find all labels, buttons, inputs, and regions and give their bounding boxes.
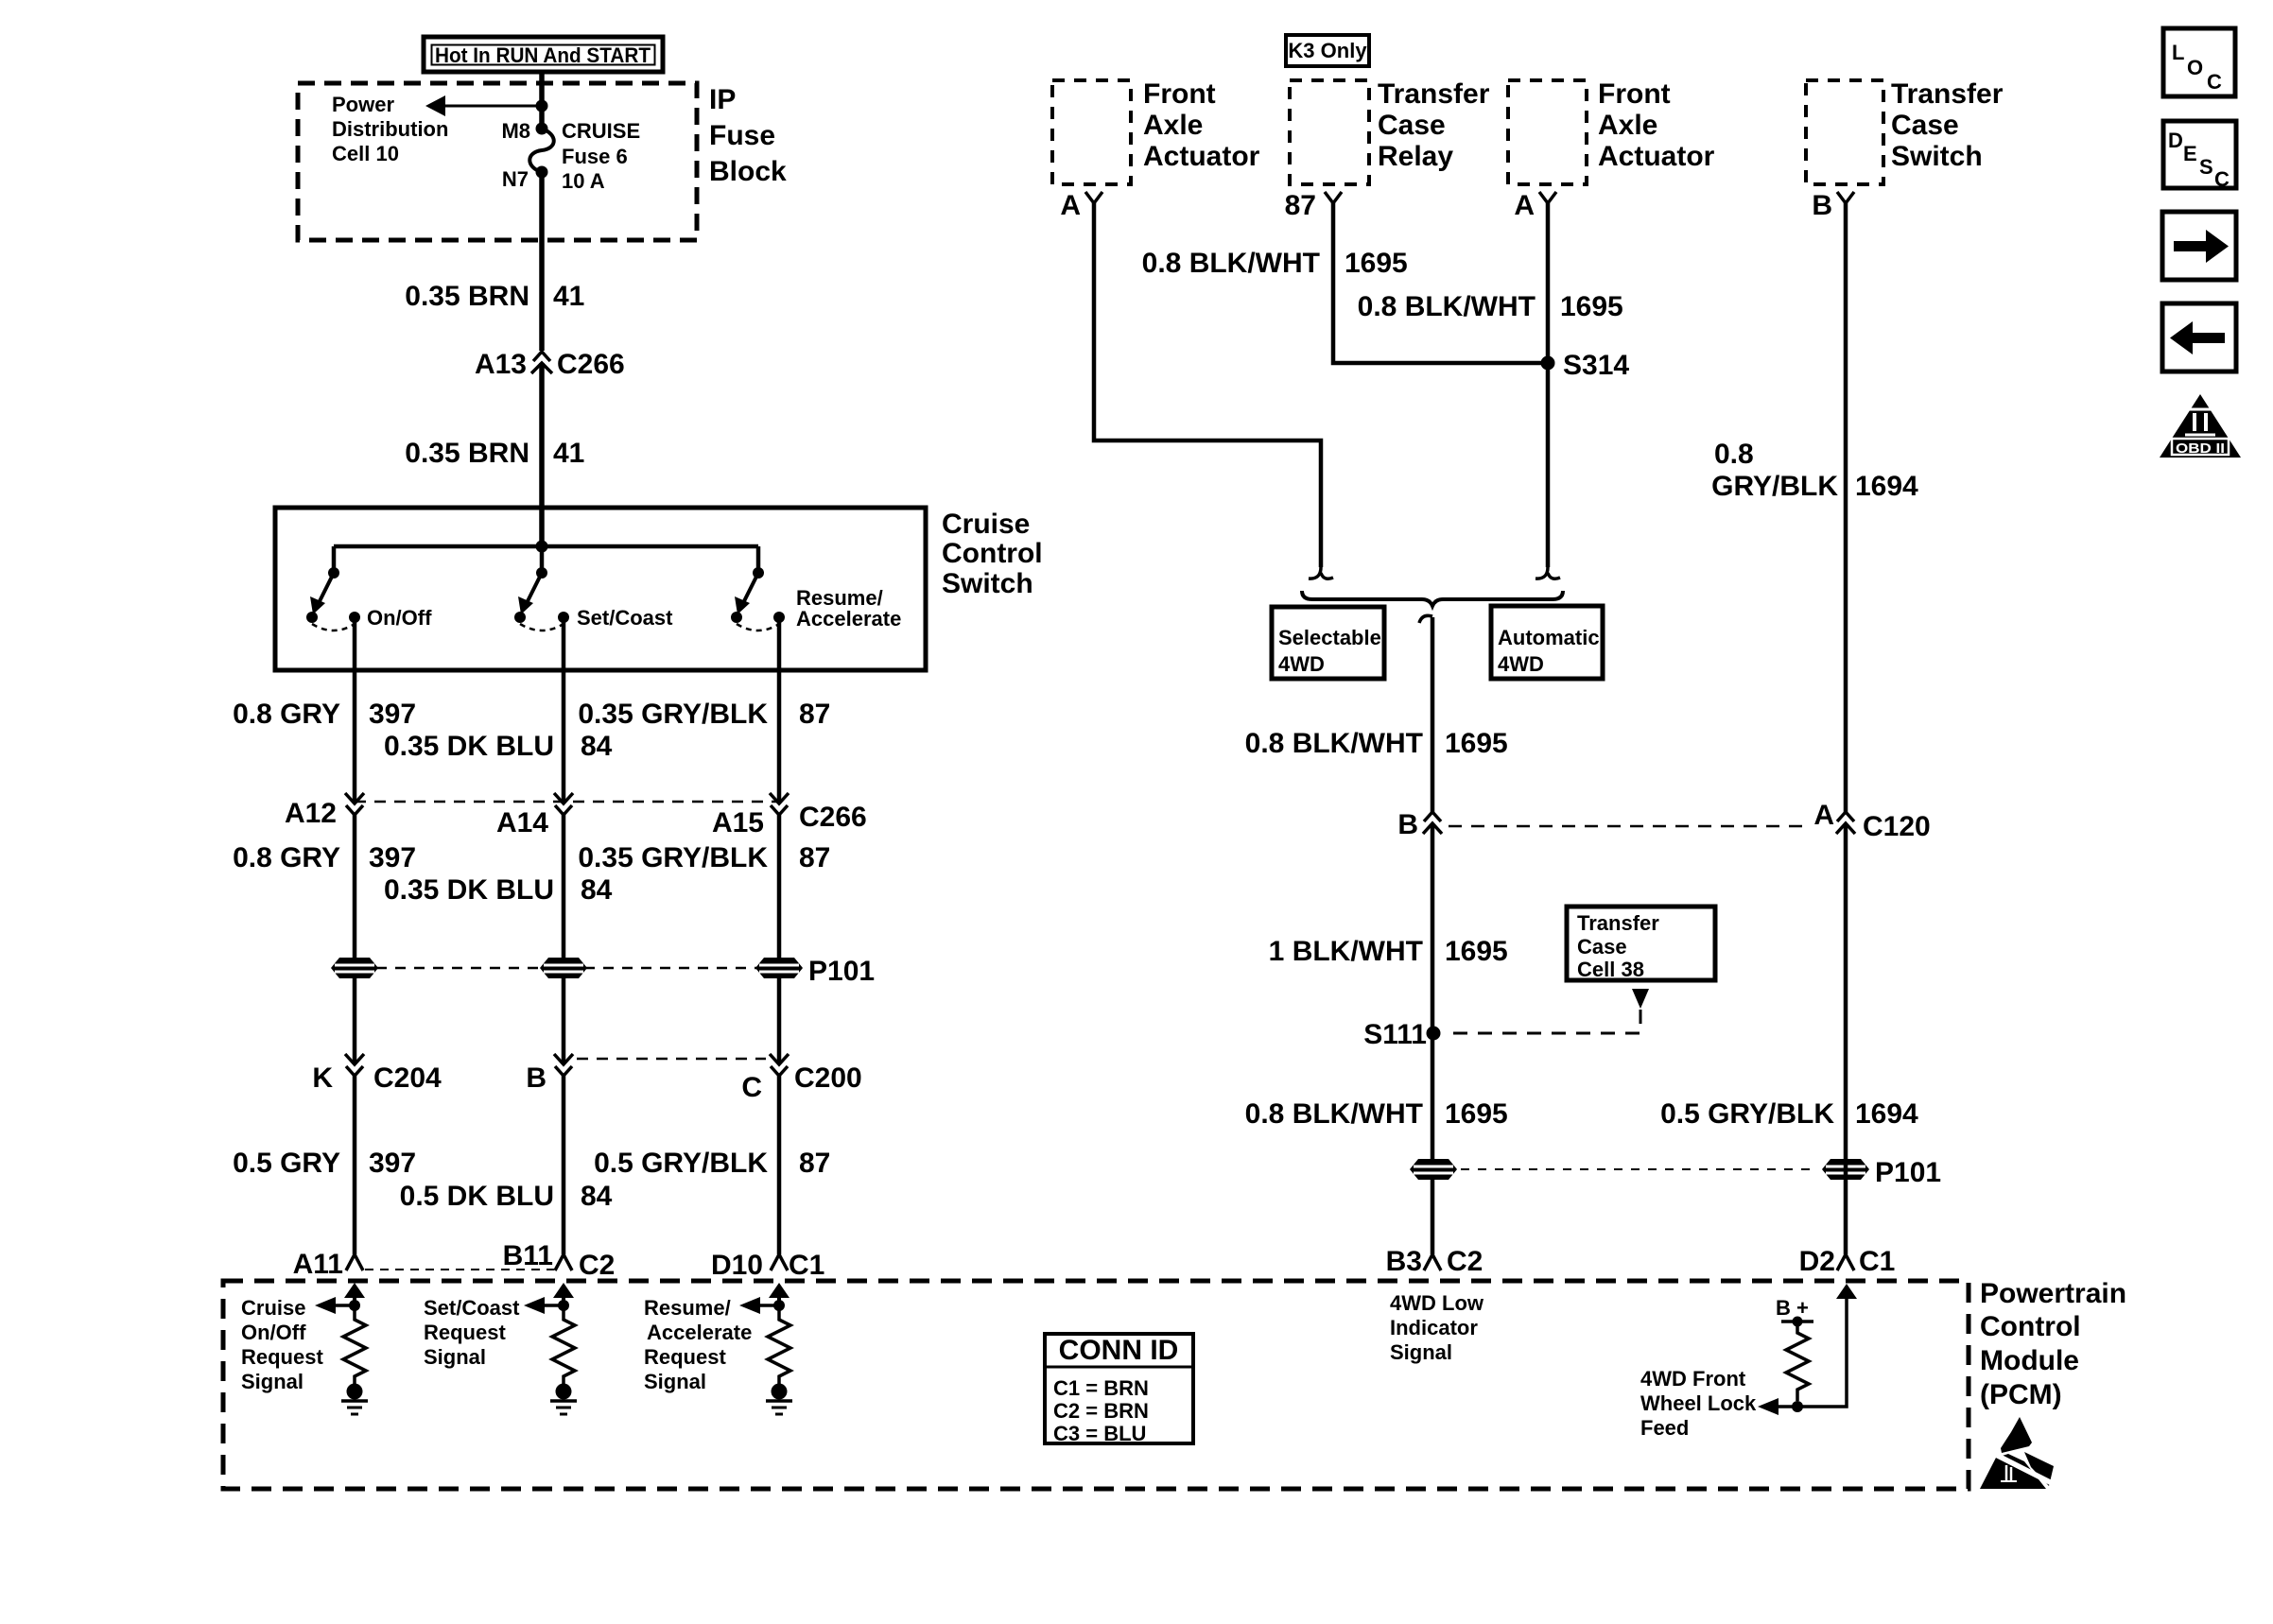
ESD sensitivity symbol: [1980, 1417, 2057, 1489]
wire label 0.35 BRN 41: [405, 281, 584, 312]
svg-text:C: C: [2214, 167, 2230, 191]
label 4WD Front Wheel Lock Feed: [1640, 1367, 1757, 1440]
wire hook left actuator lead: [1309, 567, 1333, 579]
svg-text:1694: 1694: [1855, 471, 1918, 502]
svg-text:M8: M8: [501, 119, 530, 143]
label 4WD Low Indicator Signal: [1390, 1291, 1484, 1364]
svg-text:0.35 BRN: 0.35 BRN: [405, 438, 529, 469]
svg-text:Cruise: Cruise: [942, 509, 1030, 540]
svg-text:Case: Case: [1891, 110, 1959, 141]
node junction on bus: [536, 541, 548, 553]
svg-text:Signal: Signal: [1390, 1340, 1452, 1364]
svg-text:Case: Case: [1577, 935, 1627, 959]
switch On/Off: [306, 567, 432, 631]
svg-text:Automatic: Automatic: [1498, 626, 1600, 649]
B+ supply symbol: [1776, 1296, 1813, 1327]
svg-text:Switch: Switch: [1891, 141, 1983, 172]
grommet P101 left row dashed link: [376, 967, 758, 970]
svg-text:0.35 GRY/BLK: 0.35 GRY/BLK: [578, 842, 768, 873]
label IP Fuse Block: [709, 84, 787, 187]
svg-text:CONN ID: CONN ID: [1059, 1335, 1179, 1366]
svg-text:Fuse 6: Fuse 6: [562, 145, 628, 168]
svg-text:Cruise: Cruise: [241, 1296, 305, 1320]
wire On/Off output: [353, 617, 357, 803]
wire label 0.8 GRY/BLK 1694: [1711, 439, 1918, 502]
resistor 4WD front wheel lock feed: [1786, 1322, 1809, 1401]
connector K C204: [312, 1054, 442, 1094]
switch Set/Coast: [514, 567, 673, 631]
wire label 0.8 BLK/WHT 1695 (actuator branch): [1358, 291, 1623, 322]
svg-text:B: B: [526, 1063, 547, 1094]
svg-text:Front: Front: [1143, 78, 1216, 110]
svg-text:GRY/BLK: GRY/BLK: [1711, 471, 1838, 502]
svg-text:4WD: 4WD: [1278, 652, 1325, 676]
svg-text:87: 87: [799, 842, 830, 873]
splice S111: [1363, 1019, 1440, 1050]
svg-text:On/Off: On/Off: [367, 606, 432, 630]
wire from right actuator A down through S314: [1546, 203, 1551, 567]
svg-text:IP: IP: [709, 84, 736, 115]
svg-text:Cell 10: Cell 10: [332, 142, 399, 165]
dashed link A11 to B11: [365, 1269, 554, 1270]
svg-text:C2: C2: [579, 1250, 615, 1281]
svg-text:OBD II: OBD II: [2176, 441, 2225, 457]
svg-text:Powertrain: Powertrain: [1980, 1278, 2126, 1309]
svg-text:Hot In RUN And START: Hot In RUN And START: [435, 43, 651, 67]
svg-text:C1: C1: [789, 1250, 824, 1281]
wire fuse output down to cruise switch: [539, 172, 545, 351]
wire B to B11: [562, 1076, 566, 1254]
connector A13 C266: [475, 349, 625, 380]
svg-text:D10: D10: [711, 1250, 763, 1281]
svg-text:41: 41: [553, 281, 584, 312]
svg-text:B: B: [1397, 809, 1418, 840]
wire from left actuator A down and right: [1094, 203, 1321, 567]
label Transfer Case Switch: [1891, 78, 2004, 172]
wire hook right actuator lead: [1536, 567, 1560, 579]
svg-text:A13: A13: [475, 349, 527, 380]
svg-text:Module: Module: [1980, 1345, 2079, 1376]
grommet P101 at Set/Coast wire: [540, 958, 587, 978]
pin 87 of Transfer Case Relay: [1285, 190, 1342, 221]
wire label 0.5 DK BLU 84: [400, 1181, 613, 1212]
icon LOC button: [2163, 28, 2235, 96]
connector C C200: [741, 1054, 861, 1103]
svg-text:1695: 1695: [1445, 1098, 1508, 1130]
svg-text:Power: Power: [332, 93, 394, 116]
svg-text:Distribution: Distribution: [332, 117, 448, 141]
svg-text:84: 84: [581, 731, 613, 762]
CONN ID table: [1045, 1334, 1193, 1445]
wire label 0.8 BLK/WHT 1695 (below S111): [1245, 1098, 1508, 1130]
IP Fuse Block dashed box: [298, 83, 697, 240]
svg-text:Resume/: Resume/: [644, 1296, 731, 1320]
svg-text:1694: 1694: [1855, 1098, 1918, 1130]
svg-text:4WD Front: 4WD Front: [1640, 1367, 1746, 1391]
grommet P101 at merged wire: [1410, 1159, 1457, 1180]
svg-text:B +: B +: [1776, 1296, 1809, 1320]
svg-text:0.35 DK BLU: 0.35 DK BLU: [384, 731, 554, 762]
svg-text:Control: Control: [1980, 1311, 2081, 1342]
wire label 0.5 GRY 397: [233, 1148, 416, 1179]
PCM input circuit for Resume/Accelerate: [739, 1283, 792, 1414]
component Front Axle Actuator (left) dashed box: [1052, 80, 1131, 184]
svg-text:N7: N7: [502, 167, 529, 191]
svg-text:Request: Request: [424, 1321, 506, 1344]
switch Resume/Accelerate: [731, 567, 901, 631]
wire transfer case switch B down: [1844, 203, 1848, 812]
dashed link B to A C120: [1449, 825, 1808, 828]
svg-text:A: A: [1514, 190, 1535, 221]
connector A11 at PCM: [293, 1249, 363, 1280]
svg-text:Signal: Signal: [644, 1370, 706, 1393]
svg-text:E: E: [2183, 142, 2197, 165]
svg-text:84: 84: [581, 874, 613, 906]
arrow from Transfer Case Cell 38: [1632, 989, 1649, 1009]
svg-text:0.35 DK BLU: 0.35 DK BLU: [384, 874, 554, 906]
svg-text:Accelerate: Accelerate: [647, 1321, 752, 1344]
label Transfer Case Relay: [1378, 78, 1490, 172]
svg-text:C120: C120: [1863, 811, 1931, 842]
svg-text:S: S: [2199, 155, 2213, 179]
node resistor bottom junction: [1792, 1401, 1803, 1412]
connector B11 C2 at PCM: [503, 1240, 616, 1281]
node junction at fuse feed: [536, 100, 548, 112]
svg-text:D2: D2: [1799, 1246, 1835, 1277]
svg-text:A11: A11: [293, 1249, 343, 1280]
wire merged signal C120 to PCM: [1431, 823, 1435, 1254]
grommet P101 at Resume wire: [755, 958, 803, 978]
label Cruise On/Off Request Signal: [241, 1296, 323, 1393]
icon OBD II symbol: [2160, 394, 2241, 458]
wire label 0.35 DK BLU 84 (second): [384, 874, 613, 906]
svg-text:Request: Request: [644, 1345, 726, 1369]
connector D10 C1 at PCM: [711, 1250, 824, 1281]
svg-text:C266: C266: [799, 802, 867, 833]
svg-text:A12: A12: [285, 798, 337, 829]
svg-text:87: 87: [799, 699, 830, 730]
svg-text:On/Off: On/Off: [241, 1321, 306, 1344]
svg-text:1 BLK/WHT: 1 BLK/WHT: [1269, 936, 1423, 967]
svg-text:84: 84: [581, 1181, 613, 1212]
label Resume/Accelerate Request Signal: [644, 1296, 752, 1393]
label Set/Coast Request Signal: [424, 1296, 520, 1369]
svg-text:0.5 DK BLU: 0.5 DK BLU: [400, 1181, 554, 1212]
svg-text:10 A: 10 A: [562, 169, 605, 193]
connector B3 C2 at PCM: [1386, 1246, 1484, 1277]
svg-text:0.35 GRY/BLK: 0.35 GRY/BLK: [578, 699, 768, 730]
connector B (C200): [526, 1054, 573, 1094]
wire label 0.8 GRY 397 (second): [233, 842, 416, 873]
svg-text:41: 41: [553, 438, 584, 469]
svg-text:Set/Coast: Set/Coast: [424, 1296, 520, 1320]
svg-text:Block: Block: [709, 156, 787, 187]
svg-text:87: 87: [799, 1148, 830, 1179]
svg-text:C200: C200: [794, 1063, 862, 1094]
svg-text:K: K: [312, 1063, 333, 1094]
arrow 4WD Front Wheel Lock Feed output: [1758, 1398, 1797, 1415]
grommet P101 at On/Off wire: [331, 958, 378, 978]
svg-text:Transfer: Transfer: [1378, 78, 1490, 110]
svg-text:Axle: Axle: [1143, 110, 1203, 141]
svg-text:P101: P101: [1875, 1157, 1941, 1188]
wire to power distribution with arrow: [425, 95, 542, 116]
label box Transfer Case Cell 38: [1567, 907, 1715, 981]
svg-text:(PCM): (PCM): [1980, 1379, 2062, 1410]
wire label 0.5 GRY/BLK 87: [594, 1148, 830, 1179]
svg-text:S314: S314: [1563, 350, 1629, 381]
wire switch signal to PCM: [1844, 823, 1848, 1254]
svg-text:Signal: Signal: [424, 1345, 486, 1369]
grommet P101 at switch wire: [1822, 1159, 1869, 1180]
svg-text:0.8 BLK/WHT: 0.8 BLK/WHT: [1358, 291, 1536, 322]
svg-text:A: A: [1060, 190, 1081, 221]
wire label 0.5 GRY/BLK 1694: [1660, 1098, 1918, 1130]
svg-text:397: 397: [369, 842, 416, 873]
wire internal bus of cruise switch: [334, 546, 758, 573]
connector B C120: [1397, 809, 1442, 840]
wire label 0.8 BLK/WHT 1695 (merged): [1245, 728, 1508, 759]
svg-text:C: C: [2207, 70, 2222, 94]
splice S314: [1541, 350, 1630, 381]
label Power Distribution Cell 10: [332, 93, 448, 165]
wire label 0.35 GRY/BLK 87: [578, 699, 830, 730]
svg-text:B3: B3: [1386, 1246, 1422, 1277]
svg-text:Accelerate: Accelerate: [796, 607, 901, 631]
svg-text:Actuator: Actuator: [1598, 141, 1715, 172]
svg-text:K3 Only: K3 Only: [1288, 39, 1367, 62]
svg-text:Transfer: Transfer: [1891, 78, 2004, 110]
svg-text:Control: Control: [942, 538, 1043, 569]
component Transfer Case Switch dashed box: [1806, 80, 1883, 184]
pin A of left Front Axle Actuator: [1060, 190, 1102, 221]
svg-text:A14: A14: [496, 807, 548, 838]
wire hook below brace: [1419, 615, 1432, 623]
label Powertrain Control Module (PCM): [1980, 1278, 2126, 1410]
label box K3 Only: [1286, 35, 1369, 66]
svg-text:0.35 BRN: 0.35 BRN: [405, 281, 529, 312]
svg-text:397: 397: [369, 1148, 416, 1179]
svg-text:Relay: Relay: [1378, 141, 1453, 172]
connector A C120: [1813, 800, 1930, 842]
svg-text:Front: Front: [1598, 78, 1671, 110]
svg-text:C204: C204: [373, 1063, 442, 1094]
svg-text:Set/Coast: Set/Coast: [577, 606, 673, 630]
wire label 0.8 BLK/WHT 1695 (relay branch): [1142, 248, 1408, 279]
svg-text:C3 = BLU: C3 = BLU: [1053, 1422, 1146, 1445]
wire from relay 87 down then right to S314: [1333, 203, 1544, 363]
wire Set/Coast to PCM upper: [562, 815, 566, 1063]
svg-text:Indicator: Indicator: [1390, 1316, 1478, 1339]
svg-text:Request: Request: [241, 1345, 323, 1369]
component Front Axle Actuator (right) dashed box: [1508, 80, 1587, 184]
svg-text:Signal: Signal: [241, 1370, 304, 1393]
svg-text:1695: 1695: [1560, 291, 1623, 322]
grommet P101 right row dashed link: [1461, 1168, 1818, 1170]
svg-text:S111: S111: [1363, 1019, 1427, 1050]
icon forward arrow button: [2162, 212, 2236, 280]
svg-text:1695: 1695: [1445, 936, 1508, 967]
wire label 0.35 DK BLU 84: [384, 731, 613, 762]
connector D2 C1 at PCM: [1799, 1246, 1896, 1277]
svg-text:D: D: [2168, 129, 2183, 152]
wire K to A11: [353, 1076, 357, 1254]
label Front Axle Actuator (right): [1598, 78, 1715, 172]
PCM input circuit for Set/Coast: [524, 1283, 577, 1414]
connector A12: [285, 793, 364, 829]
svg-text:0.8 GRY: 0.8 GRY: [233, 699, 340, 730]
svg-text:Actuator: Actuator: [1143, 141, 1260, 172]
connector row C266 dashed link: [355, 801, 779, 803]
wire from Hot box down to fuse: [539, 72, 545, 129]
svg-text:C2: C2: [1447, 1246, 1483, 1277]
wire label 0.35 BRN 41 (second): [405, 438, 584, 469]
svg-text:A: A: [1813, 800, 1834, 831]
wire junction up to D2 with arrow: [1797, 1284, 1857, 1407]
wire Set/Coast output: [562, 617, 566, 803]
svg-text:397: 397: [369, 699, 416, 730]
icon back arrow button: [2162, 303, 2236, 371]
svg-text:87: 87: [1285, 190, 1316, 221]
power label box "Hot In RUN And START": [424, 37, 663, 72]
svg-text:CRUISE: CRUISE: [562, 119, 640, 143]
svg-text:C266: C266: [557, 349, 625, 380]
wire merged 4WD signal down: [1431, 617, 1435, 812]
dashed link B to C: [577, 1058, 766, 1061]
wire C to D10: [777, 1076, 782, 1254]
svg-text:Cell 38: Cell 38: [1577, 958, 1644, 981]
svg-text:4WD Low: 4WD Low: [1390, 1291, 1484, 1315]
brace merging selectable/automatic leads: [1302, 591, 1563, 606]
svg-text:C: C: [741, 1072, 762, 1103]
svg-text:C2 = BRN: C2 = BRN: [1053, 1399, 1149, 1423]
svg-text:0.8: 0.8: [1714, 439, 1754, 470]
svg-text:Axle: Axle: [1598, 110, 1657, 141]
icon DESC button: [2163, 121, 2236, 191]
svg-text:1695: 1695: [1345, 248, 1408, 279]
wire Resume output: [777, 617, 782, 803]
Cruise Control Switch box: [275, 508, 926, 670]
svg-text:P101: P101: [808, 956, 875, 987]
component Transfer Case Relay dashed box: [1290, 80, 1369, 184]
svg-text:1695: 1695: [1445, 728, 1508, 759]
wire label 0.35 GRY/BLK 87 (second): [578, 842, 830, 873]
svg-text:Switch: Switch: [942, 568, 1033, 599]
svg-text:Wheel Lock: Wheel Lock: [1640, 1391, 1757, 1415]
fuse CRUISE Fuse 6 10 A: [501, 119, 640, 193]
label Cruise Control Switch: [942, 509, 1043, 599]
svg-text:4WD: 4WD: [1498, 652, 1544, 676]
svg-text:0.5 GRY/BLK: 0.5 GRY/BLK: [594, 1148, 768, 1179]
wire label 0.8 GRY 397: [233, 699, 416, 730]
svg-text:0.8 BLK/WHT: 0.8 BLK/WHT: [1245, 1098, 1423, 1130]
svg-text:C1 = BRN: C1 = BRN: [1053, 1376, 1149, 1400]
label Front Axle Actuator (left): [1143, 78, 1260, 172]
svg-text:B: B: [1812, 190, 1832, 221]
svg-text:Transfer: Transfer: [1577, 911, 1659, 935]
svg-text:0.8 BLK/WHT: 0.8 BLK/WHT: [1142, 248, 1320, 279]
connector A15 C266: [712, 793, 867, 838]
dashed link S111 to Transfer Case cell: [1445, 1010, 1640, 1033]
svg-text:0.5 GRY/BLK: 0.5 GRY/BLK: [1660, 1098, 1834, 1130]
pin B of Transfer Case Switch: [1812, 190, 1854, 221]
svg-text:0.5 GRY: 0.5 GRY: [233, 1148, 340, 1179]
PCM dashed box: [223, 1281, 1969, 1489]
svg-text:Case: Case: [1378, 110, 1446, 141]
wire On/Off to PCM upper: [353, 815, 357, 1063]
svg-text:A15: A15: [712, 807, 764, 838]
svg-text:B11: B11: [503, 1240, 553, 1271]
PCM input circuit for On/Off (arrows, resistor, ground): [315, 1283, 368, 1414]
svg-text:0.8 BLK/WHT: 0.8 BLK/WHT: [1245, 728, 1423, 759]
label box Automatic 4WD: [1491, 606, 1603, 679]
svg-text:O: O: [2187, 56, 2203, 79]
svg-text:0.8 GRY: 0.8 GRY: [233, 842, 340, 873]
label box Selectable 4WD: [1272, 607, 1384, 679]
svg-text:Fuse: Fuse: [709, 120, 775, 151]
svg-text:Selectable: Selectable: [1278, 626, 1381, 649]
wire label 1 BLK/WHT 1695: [1269, 936, 1508, 967]
pin A of right Front Axle Actuator: [1514, 190, 1556, 221]
svg-text:Feed: Feed: [1640, 1416, 1689, 1440]
wire Resume to PCM upper: [777, 815, 782, 1063]
connector A14: [496, 793, 573, 838]
svg-text:C1: C1: [1859, 1246, 1895, 1277]
svg-text:L: L: [2172, 41, 2184, 64]
